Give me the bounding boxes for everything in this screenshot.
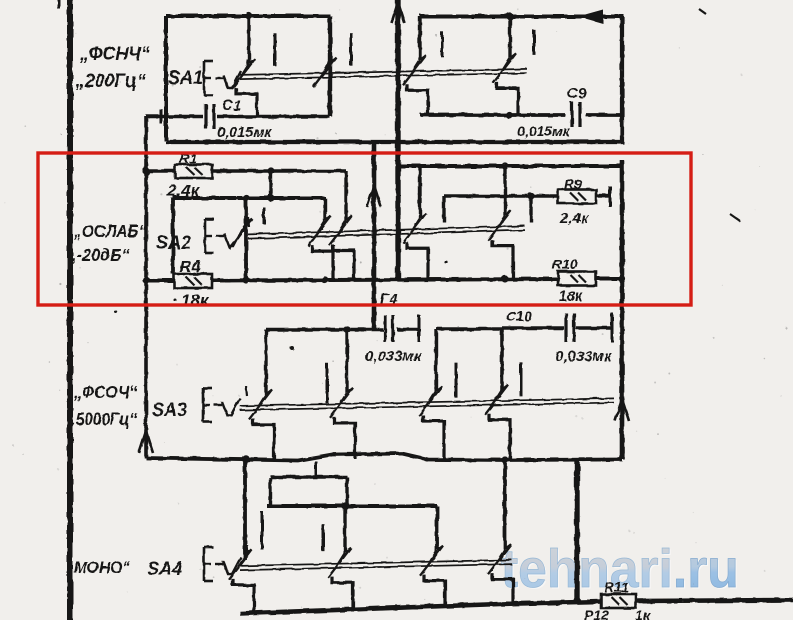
svg-text:„ОСЛАБ“: „ОСЛАБ“ bbox=[73, 221, 147, 241]
svg-text:С10: С10 bbox=[506, 308, 532, 324]
svg-text:„5000Гц“: „5000Гц“ bbox=[67, 410, 138, 429]
svg-text:SA3: SA3 bbox=[152, 399, 188, 421]
svg-text:18к: 18к bbox=[559, 289, 583, 305]
svg-text:18к: 18к bbox=[181, 291, 210, 310]
svg-text:Р12: Р12 bbox=[584, 607, 609, 620]
svg-text:1к: 1к bbox=[635, 607, 651, 620]
svg-text:„МОНО“: „МОНО“ bbox=[65, 558, 131, 577]
svg-text:.ru: .ru bbox=[673, 539, 739, 599]
svg-text:0,033мк: 0,033мк bbox=[555, 348, 613, 365]
svg-text:0,033мк: 0,033мк bbox=[365, 348, 423, 365]
svg-text:SA4: SA4 bbox=[147, 558, 182, 580]
svg-text:R10: R10 bbox=[552, 256, 578, 272]
svg-text:tehnari: tehnari bbox=[501, 539, 673, 599]
svg-text:„ФСОЧ“: „ФСОЧ“ bbox=[73, 382, 138, 402]
svg-text:С9: С9 bbox=[567, 85, 587, 102]
svg-text:0,015мк: 0,015мк bbox=[217, 125, 272, 141]
svg-text:R4: R4 bbox=[179, 257, 201, 276]
svg-text:С1: С1 bbox=[222, 97, 241, 114]
svg-text:„ФСНЧ“: „ФСНЧ“ bbox=[79, 42, 150, 64]
svg-text:R9: R9 bbox=[564, 176, 582, 192]
svg-text:0,015мк: 0,015мк bbox=[517, 123, 570, 139]
svg-text:„-20дБ“: „-20дБ“ bbox=[68, 245, 130, 265]
svg-text:SA1: SA1 bbox=[168, 67, 203, 89]
svg-text:SA2: SA2 bbox=[156, 232, 192, 254]
svg-text:„200Гц“: „200Гц“ bbox=[75, 69, 146, 91]
svg-text:R11: R11 bbox=[604, 579, 629, 595]
svg-text:2,4к: 2,4к bbox=[559, 210, 590, 227]
